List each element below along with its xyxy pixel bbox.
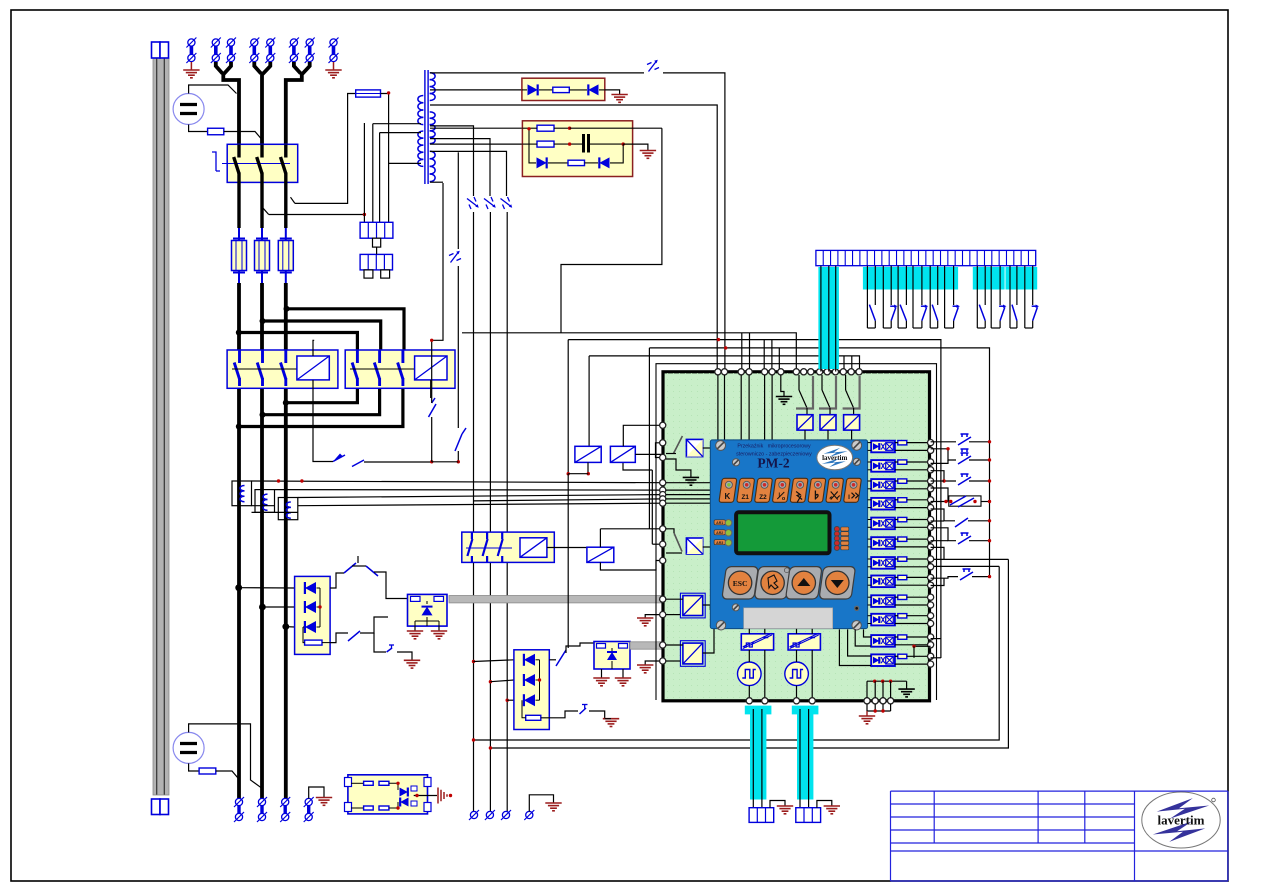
wire [529, 128, 536, 163]
resistor [898, 441, 907, 445]
svg-text:PM-2: PM-2 [757, 456, 789, 471]
wire [931, 540, 948, 542]
button UP [786, 567, 823, 599]
wire [866, 711, 868, 716]
cable [449, 596, 663, 603]
wire [623, 144, 648, 150]
wire [351, 782, 364, 784]
LED [784, 568, 789, 573]
wire [645, 661, 663, 665]
cable pair 8 [987, 267, 1005, 290]
wire [309, 787, 324, 799]
cable pair 3 [894, 267, 911, 290]
wire [473, 212, 475, 811]
diode V3 [537, 157, 547, 168]
wire [432, 183, 443, 403]
wire [969, 540, 990, 542]
wire [906, 681, 908, 689]
wire [820, 266, 822, 372]
node [988, 440, 991, 443]
busbar top terminal [152, 42, 161, 58]
pulse generator [738, 662, 762, 686]
cable pair 1 [863, 267, 880, 290]
wire [971, 436, 990, 438]
wire [313, 340, 314, 356]
optocoupler input module 9 [871, 595, 895, 607]
ground [637, 664, 653, 666]
wire phase L3 [294, 62, 301, 74]
wire [298, 495, 663, 498]
terminal [660, 596, 666, 602]
contactor Q2 pole [261, 350, 264, 363]
wire [749, 333, 751, 372]
contact [955, 518, 968, 527]
wire [748, 686, 750, 698]
svg-text:AR1: AR1 [716, 521, 723, 525]
terminal [660, 612, 666, 618]
wire [286, 626, 295, 628]
wire [567, 340, 569, 474]
wire [663, 73, 725, 372]
wire tap [430, 139, 490, 196]
terminal [660, 492, 666, 498]
wire [303, 627, 305, 643]
terminal X1.1 [188, 39, 195, 46]
terminal [801, 369, 807, 375]
terminal [928, 620, 934, 626]
terminal [778, 369, 784, 375]
thyristor pair [400, 788, 409, 807]
wire [189, 85, 237, 94]
wire [645, 615, 663, 618]
optocoupler input module 8 [871, 576, 895, 588]
terminal X1.5 [267, 39, 274, 46]
wire [666, 644, 683, 646]
key 8 [844, 478, 862, 502]
terminal [793, 698, 799, 704]
antenna ground [437, 788, 439, 804]
wire [931, 441, 956, 443]
wire [330, 573, 344, 588]
node [283, 400, 289, 406]
node [506, 699, 509, 702]
wire [895, 519, 898, 521]
optocoupler input module 12 [871, 654, 895, 666]
terminal [762, 698, 768, 704]
ground [637, 617, 653, 619]
terminal [928, 574, 934, 580]
resistor [898, 517, 907, 521]
diode V4 [599, 157, 609, 168]
wire [430, 380, 432, 398]
ground [640, 150, 656, 152]
svg-text:Z2: Z2 [759, 494, 767, 501]
terminal [715, 369, 721, 375]
key 7 [826, 478, 844, 502]
terminal X4.1 [235, 798, 242, 805]
lavertim logo [817, 445, 853, 470]
node [988, 575, 991, 578]
wire [895, 623, 930, 625]
wire [703, 447, 711, 449]
wire [666, 494, 710, 496]
ground [545, 802, 561, 804]
ground [683, 476, 699, 478]
resistor [898, 537, 907, 541]
contactor Q3 pole [356, 350, 359, 363]
terminal X4.4 [305, 798, 312, 805]
diode [524, 674, 535, 686]
svg-text:ESC: ESC [733, 579, 748, 588]
optocoupler input module 11 [871, 635, 895, 647]
contactor Q1 [227, 144, 298, 182]
wire [561, 128, 662, 333]
wire [430, 143, 522, 145]
wire [376, 247, 378, 254]
wire [287, 309, 405, 350]
busbar PE/N rail [153, 58, 169, 795]
terminal [872, 698, 878, 704]
terminal X1.8 [330, 39, 337, 46]
wire [895, 596, 898, 598]
wire [262, 606, 294, 608]
transformer TR1 primary [418, 96, 423, 103]
wire [601, 669, 603, 678]
wire [284, 181, 287, 228]
terminal [660, 541, 666, 547]
screw [716, 621, 725, 630]
coil K2 [297, 356, 329, 380]
resistor [208, 128, 224, 135]
wire [666, 598, 683, 600]
resistor [199, 768, 216, 774]
terminal X4.2 [258, 798, 265, 805]
wire [237, 181, 240, 228]
terminal [840, 369, 846, 375]
wire [363, 123, 365, 222]
contact [556, 650, 566, 666]
wire [430, 72, 644, 74]
terminal [824, 369, 830, 375]
wire [895, 636, 898, 638]
wire [843, 356, 845, 372]
wire [541, 711, 578, 718]
resistor [898, 557, 907, 561]
resistor [898, 575, 907, 579]
contact [891, 307, 896, 320]
wire phase L1 [223, 62, 239, 145]
wire [931, 578, 944, 585]
wire [703, 546, 711, 548]
contact [1012, 305, 1017, 321]
key 2 [737, 478, 755, 502]
terminal [809, 698, 815, 704]
LED AR2 [714, 530, 725, 535]
wire [828, 266, 830, 372]
terminal [864, 698, 870, 704]
terminal [928, 556, 934, 562]
terminal X1.4 [251, 39, 258, 46]
LED AR1 [714, 520, 725, 525]
svg-text:Z1: Z1 [741, 494, 749, 501]
contact [958, 456, 971, 464]
wire [522, 89, 527, 91]
wire [489, 212, 491, 811]
resistor [379, 806, 389, 810]
terminal [928, 602, 934, 608]
wire [868, 596, 872, 598]
wire [474, 566, 1000, 740]
wire [944, 266, 946, 328]
wire [851, 356, 853, 372]
wire [890, 681, 892, 698]
contact K3 aux [333, 455, 345, 462]
wire [430, 181, 443, 183]
svg-text:I: I [848, 494, 850, 501]
wire [666, 459, 691, 477]
wire [771, 375, 773, 440]
relay contact [821, 375, 823, 390]
label window [744, 608, 833, 629]
LED AR3 [714, 540, 725, 545]
contact [501, 532, 503, 539]
filter module U2 [522, 121, 632, 177]
terminal [928, 594, 934, 600]
contact [958, 437, 971, 445]
wire [330, 633, 348, 643]
contactor Q2 pole [238, 350, 241, 363]
optocoupler input module 6 [871, 537, 895, 549]
terminal [888, 698, 894, 704]
wire [317, 587, 321, 589]
contact [869, 305, 875, 321]
coil K3 [415, 356, 447, 380]
wire [895, 576, 898, 578]
cable [792, 706, 819, 800]
wire tap [430, 151, 507, 196]
terminal [660, 642, 666, 648]
wire [554, 143, 582, 145]
wire [652, 543, 662, 545]
cable pair 2 [879, 267, 896, 290]
cabinet outline [656, 364, 937, 700]
terminal [660, 658, 666, 664]
wire [931, 528, 956, 541]
node [259, 604, 266, 611]
wire [931, 547, 944, 559]
wire [635, 453, 662, 455]
terminal X5.1 [470, 811, 477, 818]
screw [852, 440, 862, 450]
wire [868, 576, 872, 578]
wire [548, 162, 568, 164]
wire [462, 333, 796, 372]
wire [866, 266, 868, 328]
wire [589, 143, 624, 145]
svg-text:AR3: AR3 [716, 541, 723, 545]
terminal [660, 480, 666, 486]
optocoupler module U3 [408, 594, 448, 626]
wire [589, 711, 605, 719]
terminal [762, 369, 768, 375]
diode [305, 621, 316, 633]
cable pair 7 [973, 267, 990, 290]
node [285, 307, 288, 310]
terminal [808, 369, 814, 375]
wire [778, 348, 780, 372]
contactor Q2 [227, 350, 338, 388]
wire [931, 480, 944, 482]
wire [868, 480, 872, 482]
pulse generator [785, 662, 809, 686]
relay [844, 415, 860, 430]
terminal [928, 497, 934, 503]
wire [969, 480, 990, 482]
wire [352, 565, 366, 567]
wire [874, 681, 876, 698]
wire [764, 375, 766, 440]
wire [605, 90, 620, 95]
ground [431, 630, 447, 632]
contact aux [429, 404, 437, 417]
busbar bottom terminal [152, 799, 161, 815]
wire [263, 321, 381, 350]
node [260, 412, 266, 418]
resistor R4 [568, 160, 585, 165]
wire [703, 605, 711, 610]
wire [748, 650, 750, 662]
wire link [350, 368, 418, 370]
wire [567, 474, 569, 648]
terminal [660, 487, 666, 493]
wire [600, 528, 662, 530]
wire [895, 449, 930, 451]
key 4 [772, 478, 790, 502]
connector X2 [360, 222, 393, 238]
wire [895, 604, 930, 606]
terminal [928, 582, 934, 588]
wire [566, 643, 594, 653]
rectifier module U1 [522, 78, 605, 100]
wire phase L3 [286, 62, 310, 145]
wire [388, 162, 421, 164]
wire [263, 388, 380, 414]
terminal [928, 653, 934, 659]
wire [547, 547, 587, 549]
wire [868, 558, 872, 560]
diode [305, 601, 316, 613]
terminal X1.6 [290, 39, 297, 46]
wire [874, 704, 876, 711]
wire [599, 529, 601, 547]
terminal [738, 369, 744, 375]
wire [431, 417, 433, 462]
wire [867, 710, 891, 712]
wire link [466, 547, 512, 549]
terminal [660, 440, 666, 446]
optocoupler input module 2 [871, 460, 895, 472]
wire [610, 144, 623, 163]
wire [740, 375, 742, 440]
relay half-square [686, 538, 702, 554]
wire [931, 520, 944, 522]
wire [380, 132, 421, 134]
fuse F3 [285, 228, 287, 241]
node [489, 680, 492, 683]
wire [239, 587, 295, 589]
contact [348, 631, 360, 641]
terminal [928, 634, 934, 640]
LED [834, 545, 839, 550]
wire [895, 655, 898, 657]
node [472, 660, 475, 663]
wire [1009, 266, 1011, 328]
ground [859, 715, 875, 717]
button ESC [722, 567, 759, 599]
terminal [928, 440, 934, 446]
wire [895, 480, 898, 482]
key 5 [790, 478, 808, 502]
ground [407, 630, 423, 632]
wire [770, 801, 785, 808]
wire [929, 266, 931, 328]
wire [239, 388, 403, 426]
wire [868, 519, 872, 521]
terminal [928, 478, 934, 484]
diode module V5 [295, 576, 331, 654]
wire [623, 462, 652, 470]
resistor [364, 781, 374, 785]
PTC module U5 [348, 775, 428, 814]
wire [931, 501, 948, 503]
resistor R1 [553, 87, 570, 92]
wire [490, 559, 1008, 748]
wire phase L3 [284, 283, 288, 799]
wire [252, 505, 275, 507]
wire [867, 680, 907, 682]
wire [752, 709, 754, 808]
wire [866, 704, 868, 711]
screw [732, 604, 739, 611]
contactor Q1 pole [284, 145, 287, 158]
terminal [817, 369, 823, 375]
terminal [928, 524, 934, 530]
terminal [660, 557, 666, 563]
resistor R3 [537, 141, 554, 147]
terminal [928, 486, 934, 492]
wire [882, 704, 884, 711]
terminal [928, 613, 934, 619]
wire [724, 375, 726, 440]
marker I [449, 251, 461, 263]
diode V1 [528, 84, 538, 95]
resistor [379, 781, 389, 785]
contactor Q1 pole [237, 145, 240, 158]
resistor R5 [305, 640, 322, 645]
coil K4 [520, 538, 547, 558]
changeover box [949, 496, 981, 506]
terminal X1.7 [306, 39, 313, 46]
wire [313, 380, 333, 462]
contact [1000, 307, 1005, 320]
node [988, 539, 991, 542]
coil K5 [587, 547, 614, 562]
wire [295, 94, 356, 204]
wire [868, 538, 872, 540]
wire [895, 442, 898, 444]
node [988, 479, 991, 482]
relay contact [845, 375, 847, 390]
